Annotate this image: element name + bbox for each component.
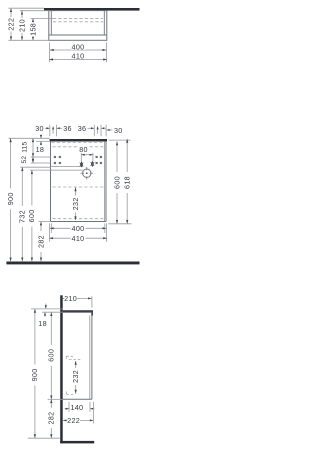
dimension 400 (top view) [50, 43, 106, 52]
floor extension line (side view) [28, 437, 60, 439]
wall line (side view) [60, 295, 63, 443]
dimension 400 (front view) [50, 224, 106, 233]
svg-text:140: 140 [70, 403, 83, 412]
dimension 18 (side view) [38, 304, 47, 328]
extension ticks below (front view) [50, 223, 107, 241]
dimension 222 (side view) [63, 402, 93, 425]
dimension 900 (side view) [30, 309, 39, 438]
tap hole symbol left (front view) [80, 162, 84, 166]
washbasin top plate (front view) [50, 139, 107, 142]
dimension 210 (side view) [63, 294, 92, 308]
svg-text:600: 600 [112, 176, 121, 189]
dimension 600 right (front view) [108, 140, 131, 224]
svg-text:232: 232 [71, 197, 80, 210]
door and carcass front (side view) [63, 313, 92, 400]
fixing hole marks left (front view) [54, 156, 61, 164]
dimension 282 (front view) [36, 222, 50, 262]
svg-text:232: 232 [71, 370, 80, 383]
dimension 900 (front view) [6, 138, 50, 261]
wall line (top view) [44, 8, 140, 11]
dimension 410 (top view) [49, 52, 107, 61]
svg-text:282: 282 [36, 235, 45, 248]
dimension 140 (side view) [65, 402, 95, 412]
dimension 18 (front view) [36, 135, 50, 155]
basin bottom lines (front view) [51, 167, 83, 171]
svg-text:400: 400 [72, 224, 85, 233]
svg-text:30: 30 [114, 126, 123, 135]
floor line (side view) [60, 441, 94, 444]
carcass outline (front view) [51, 141, 107, 221]
svg-text:18: 18 [36, 145, 45, 154]
svg-text:410: 410 [72, 52, 85, 61]
svg-text:222: 222 [67, 416, 80, 425]
svg-text:210: 210 [64, 294, 77, 303]
dimension 80 tap holes (front view) [79, 145, 93, 162]
svg-text:80: 80 [79, 145, 88, 154]
svg-text:900: 900 [6, 192, 15, 205]
tap hole symbol right (front view) [91, 162, 95, 166]
floor line (front view) [6, 262, 139, 265]
svg-text:282: 282 [47, 412, 56, 425]
hidden edges dashed (front view) [52, 142, 106, 218]
extension ticks below (top view) [50, 43, 107, 63]
svg-text:18: 18 [38, 319, 47, 328]
svg-text:36: 36 [63, 124, 72, 133]
dimension 410 (front view) [49, 234, 107, 243]
svg-text:900: 900 [30, 368, 39, 381]
hidden basin edges dashed (top view) [53, 18, 103, 21]
svg-text:36: 36 [78, 124, 87, 133]
extension lines top left (side view) [31, 309, 63, 312]
svg-text:52: 52 [21, 156, 28, 164]
svg-text:732: 732 [18, 210, 27, 223]
dimension 282 (side view) [47, 399, 63, 438]
dimensions 115 and 52 (front view) [21, 138, 50, 163]
dimension 600 (side view) [47, 312, 56, 399]
svg-text:30: 30 [35, 124, 44, 133]
svg-text:210: 210 [18, 19, 27, 32]
fixing hole marks right (front view) [96, 156, 102, 164]
svg-text:618: 618 [123, 176, 132, 189]
svg-text:600: 600 [47, 349, 56, 362]
dimension 600 left (front view) [27, 170, 50, 261]
svg-text:115: 115 [22, 142, 29, 153]
hidden bottom dashed (side view) [66, 391, 73, 394]
hidden siphon cutout dashed (side view) [66, 356, 80, 359]
dimension 232 (side view) [71, 361, 80, 394]
cabinet outline (top view) [49, 11, 107, 41]
top dimension chain 30/36/36/30 (front view) [35, 124, 122, 136]
drain hole circle (front view) [81, 167, 94, 180]
svg-text:410: 410 [72, 234, 85, 243]
svg-text:222: 222 [7, 18, 16, 31]
top plate (side view) [63, 310, 93, 315]
svg-text:600: 600 [27, 209, 36, 222]
dimension 232 (front view) [71, 187, 80, 220]
dimension 210 (top view) [18, 11, 49, 41]
dimension 732 (front view) [18, 167, 51, 261]
dimension 158 (top view) [29, 18, 54, 40]
dimension 222 (top view) [7, 8, 49, 40]
svg-text:158: 158 [29, 23, 38, 36]
svg-text:400: 400 [72, 43, 85, 52]
dimension 618 right (front view) [123, 139, 132, 224]
